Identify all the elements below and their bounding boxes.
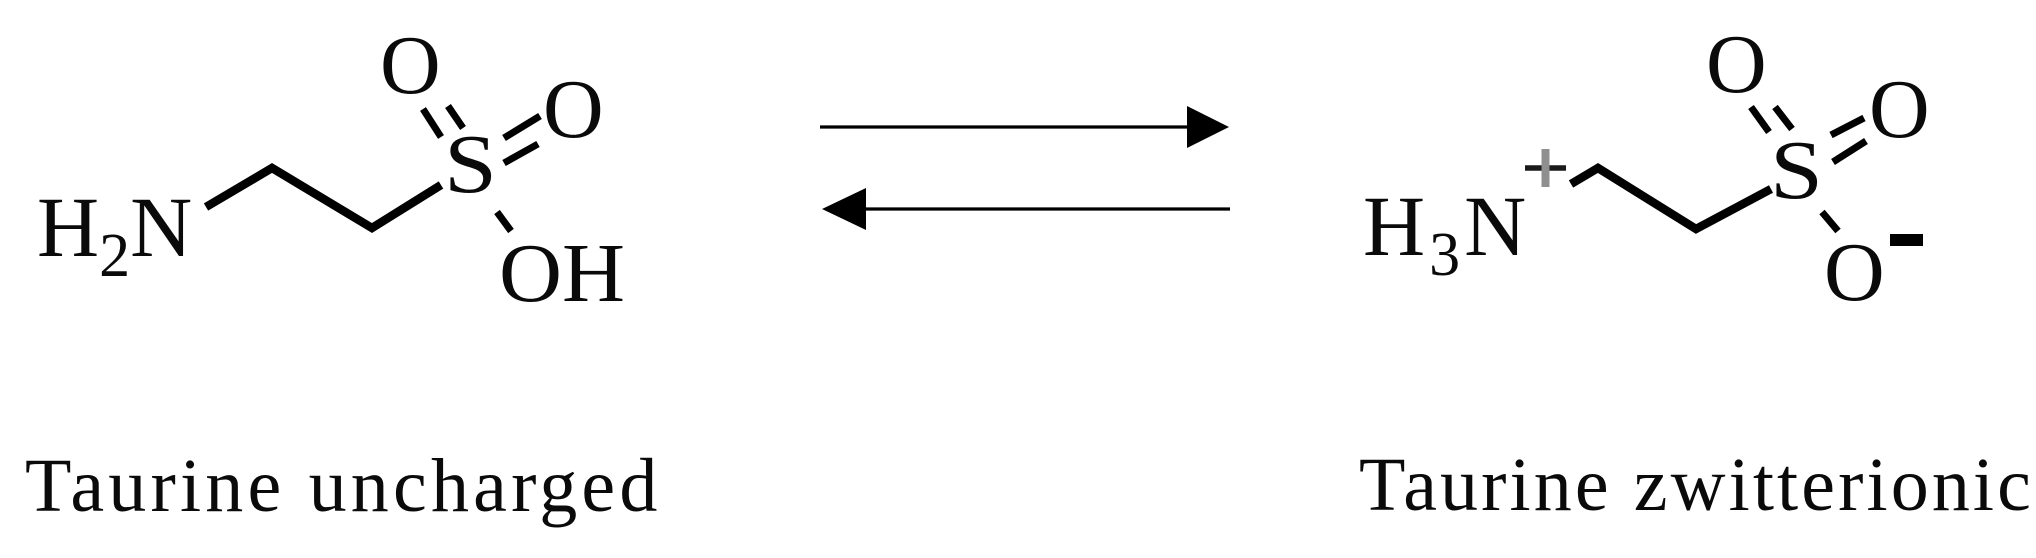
svg-text:S: S (444, 118, 497, 211)
svg-text:O: O (380, 19, 441, 112)
svg-text:OH: OH (499, 227, 625, 320)
svg-text:O: O (1869, 63, 1930, 156)
svg-text:O: O (543, 63, 604, 156)
svg-text:Taurine uncharged: Taurine uncharged (25, 444, 662, 528)
svg-text:O: O (1706, 18, 1767, 111)
svg-text:O: O (1824, 226, 1885, 319)
svg-text:S: S (1770, 124, 1823, 217)
svg-text:Taurine zwitterionic: Taurine zwitterionic (1359, 443, 2034, 527)
